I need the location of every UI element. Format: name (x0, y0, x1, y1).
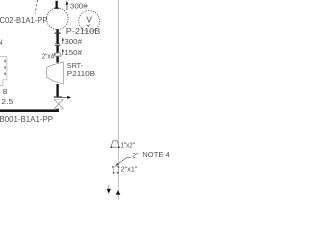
flange pair with gap (55, 43, 61, 46)
wire (pipe segment) (56, 46, 58, 53)
swage 2"x1" (on zone line) (113, 167, 119, 173)
leader arrow with label 2" (115, 163, 119, 166)
pump U P-2110B (circle) (47, 8, 69, 30)
svg-text:1"x2": 1"x2" (121, 142, 136, 149)
flange tick (55, 33, 61, 34)
value label 300# (mid) with arrow (62, 39, 64, 44)
wire (pipe segment) (56, 34, 58, 44)
wire (dashed leader, top left) (35, 0, 38, 13)
instrument bubble V (79, 11, 100, 32)
svg-text:150#: 150# (64, 48, 82, 57)
flange tick (top stub) (54, 8, 59, 9)
wire (suction stub above pump) (56, 1, 58, 8)
svg-text:P2110B: P2110B (67, 69, 95, 78)
drain arrow (to right) (59, 96, 68, 98)
svg-text:P-2110B: P-2110B (66, 27, 101, 36)
flow arrow up (on zone line) (116, 190, 121, 195)
gate valve V1 (bowtie X) (54, 99, 63, 109)
svg-text:V: V (86, 15, 92, 25)
strainer SRT-P2110B (cone symbol) (47, 62, 64, 84)
svg-text:B001-B1A1-PP: B001-B1A1-PP (0, 115, 54, 124)
svg-text:2"x4": 2"x4" (42, 54, 57, 61)
svg-text:B: B (3, 89, 8, 96)
wire (horizontal pipe run to left edge) (0, 109, 59, 112)
svg-text:300#: 300# (64, 37, 82, 46)
reducer 2"x4" (54, 53, 61, 56)
flange tick (54, 97, 62, 98)
zone line (vertical match line at right) (117, 0, 119, 200)
wire (pipe segment above strainer) (56, 56, 58, 62)
reducer 1"x2" (on zone line) (111, 141, 119, 147)
wire (elbow: valve to horizontal run) (56, 109, 58, 112)
wire (discharge pipe, segment below pump) (56, 29, 58, 32)
svg-text:C02-B1A1-PP: C02-B1A1-PP (0, 16, 48, 25)
value label 150# with arrow (62, 50, 64, 55)
svg-text:2": 2" (132, 153, 139, 160)
svg-text:300#: 300# (70, 2, 89, 11)
svg-text:2"x1": 2"x1" (121, 167, 138, 174)
table box (cut at left edge) (0, 57, 7, 86)
wire (pipe segment below strainer) (56, 84, 58, 96)
flow arrow down (off-line) (108, 185, 110, 190)
svg-text:NOTE 4: NOTE 4 (142, 150, 170, 159)
svg-text:N: N (0, 38, 3, 47)
svg-text:2.5: 2.5 (1, 97, 13, 106)
arrow (top 300# pointer) (66, 3, 68, 10)
